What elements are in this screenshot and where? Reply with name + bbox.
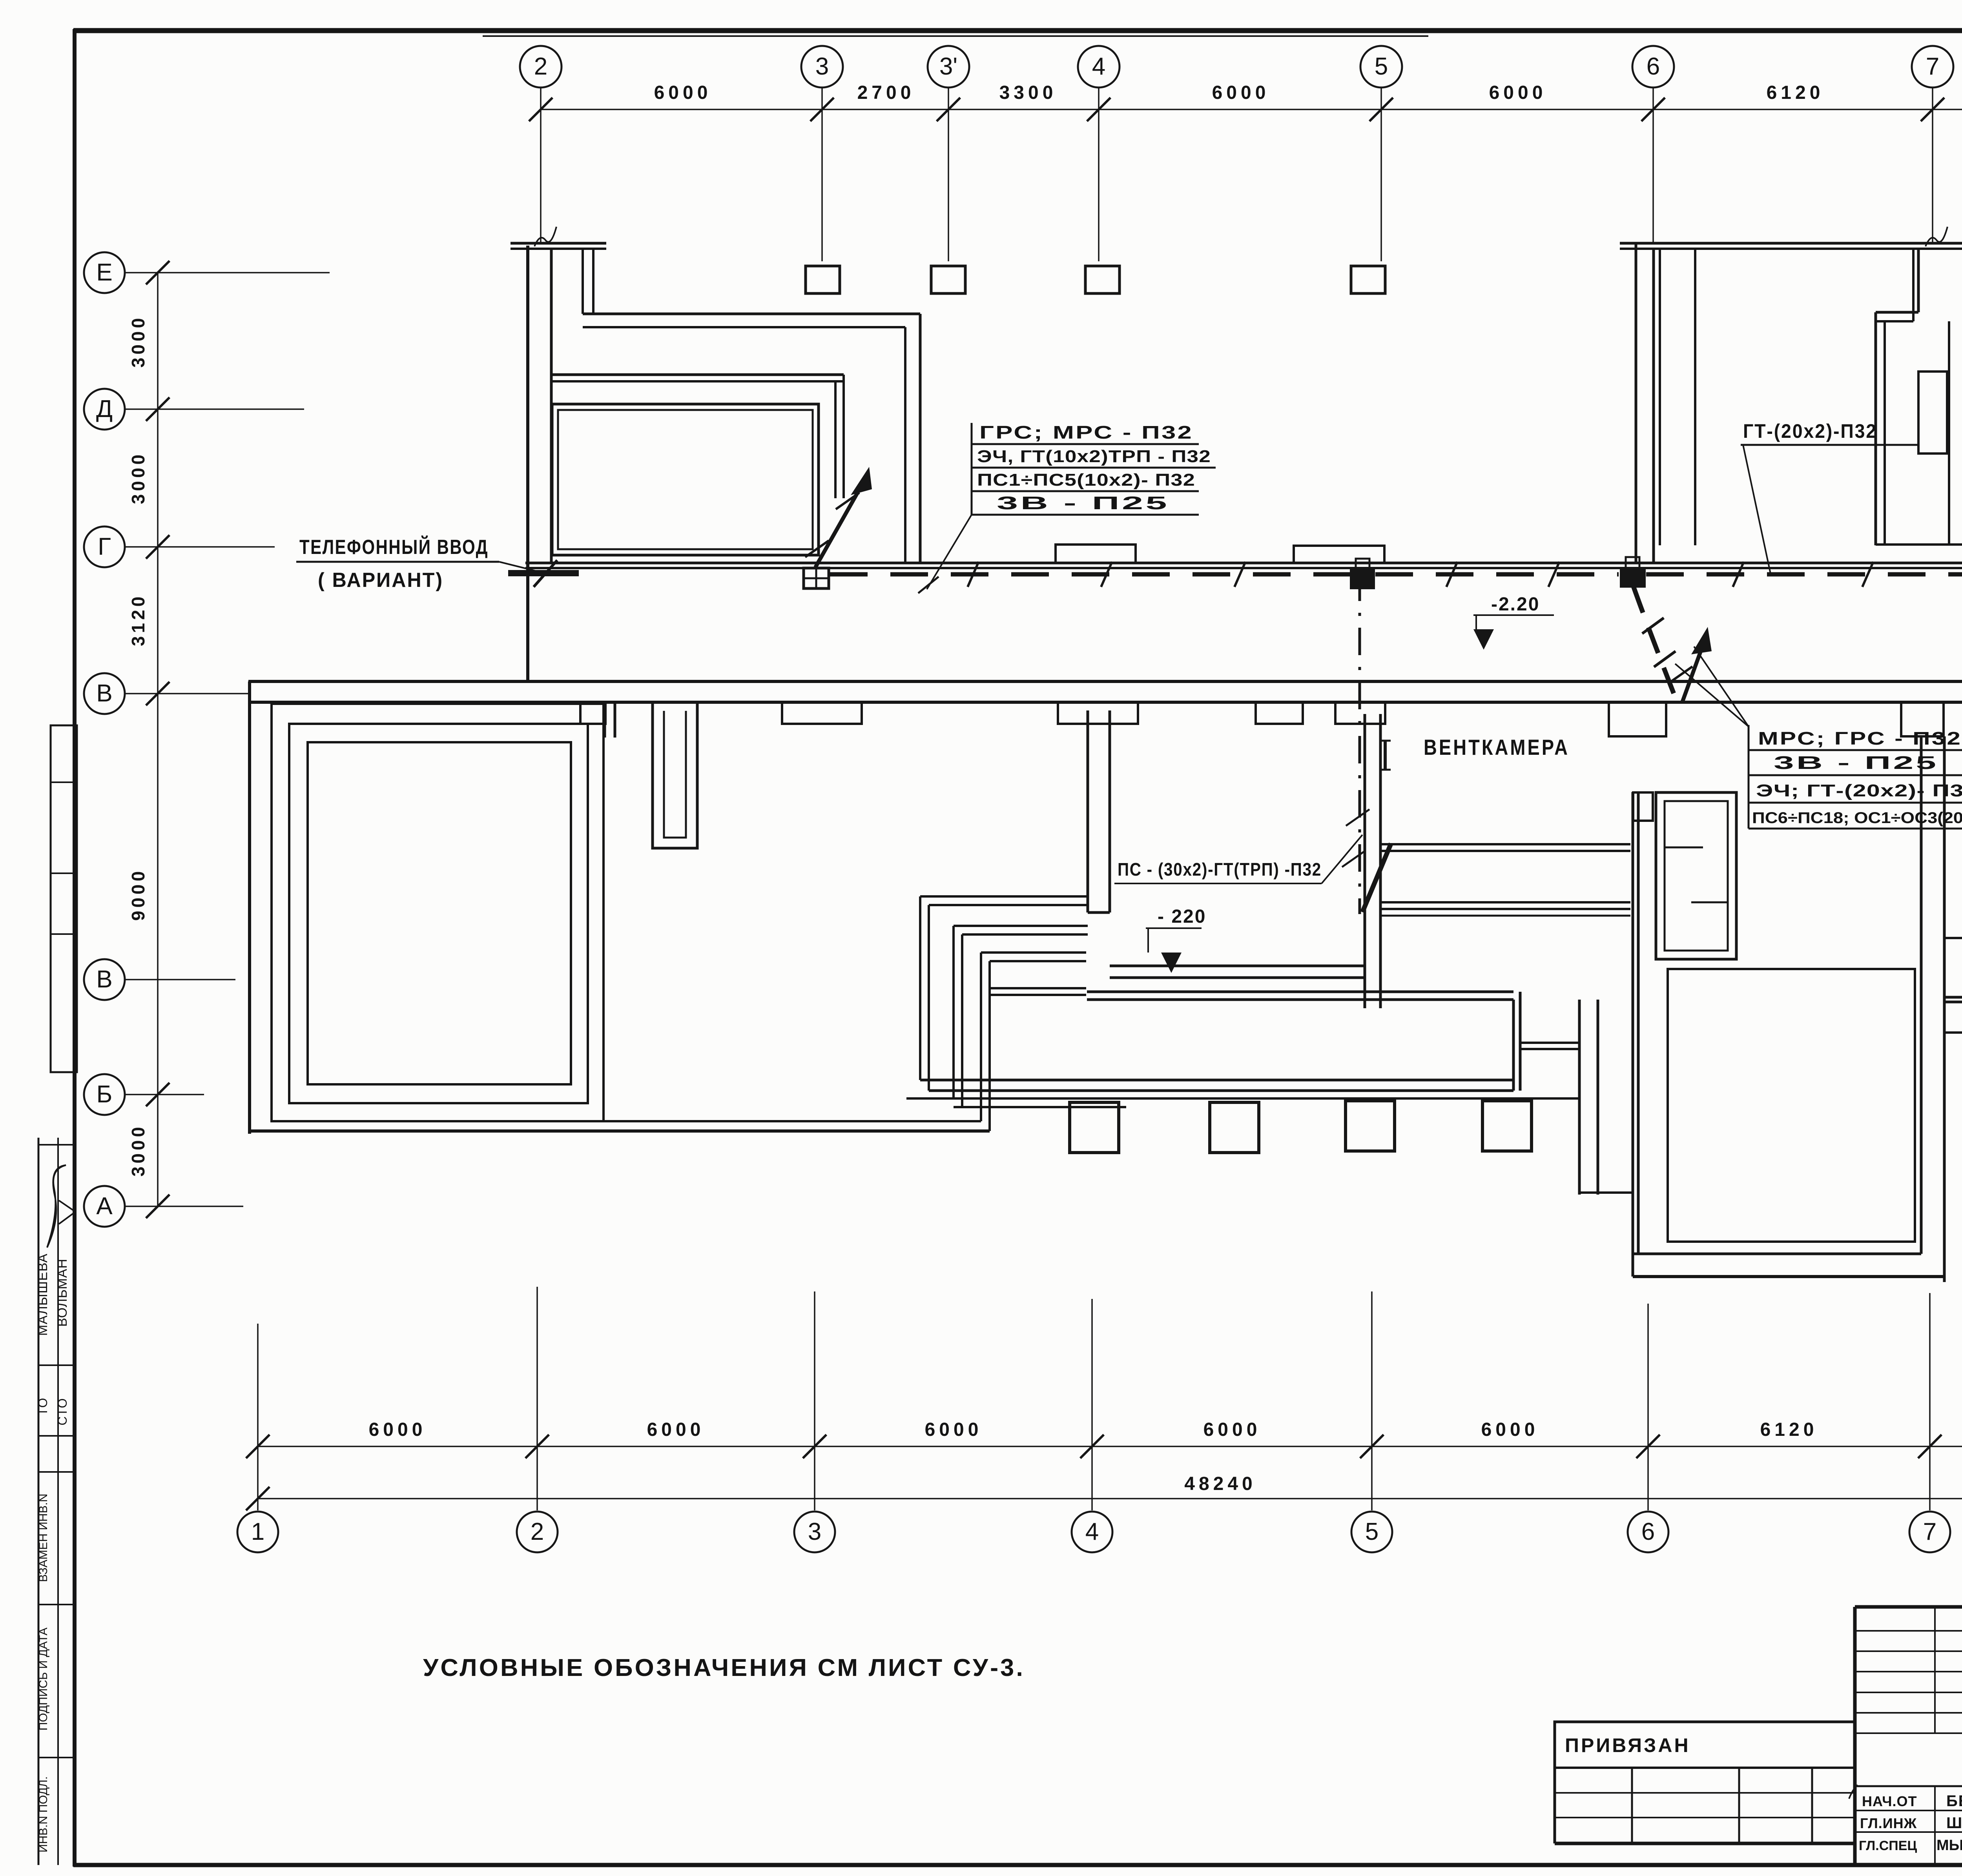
left axis lines — [125, 273, 330, 1206]
svg-text:ЭЧ, ГТ(10х2)ТРП - П32: ЭЧ, ГТ(10х2)ТРП - П32 — [977, 447, 1211, 466]
column square under axis 3 — [806, 266, 840, 293]
break marks on upper-right top wall — [1926, 227, 1962, 246]
upper-right block top wall — [1620, 243, 1962, 249]
lower building west wall — [248, 681, 251, 1134]
left axis circle Д #1 — [84, 389, 125, 430]
svg-text:ГЛ.ИНЖ: ГЛ.ИНЖ — [1860, 1815, 1917, 1831]
svg-text:3000: 3000 — [128, 452, 148, 504]
svg-text:Е: Е — [96, 259, 112, 286]
top axis circle 3 — [801, 46, 843, 87]
svg-text:ПС6÷ПС18; ОС1÷ОС3(20х2) П32: ПС6÷ПС18; ОС1÷ОС3(20х2) П32 — [1752, 809, 1962, 827]
label table МРС-ГРС near axis 5-6 — [1749, 725, 1962, 829]
upper-left block top wall — [511, 243, 606, 249]
vent chamber west partition — [1365, 714, 1380, 1008]
svg-text:6: 6 — [1641, 1518, 1655, 1545]
svg-text:СТО: СТО — [55, 1397, 69, 1425]
upper-left block west wall — [528, 246, 551, 681]
upper-left room3 outline — [552, 404, 819, 555]
svg-text:6000: 6000 — [1489, 82, 1547, 103]
upper-right room south wall above Г — [1876, 543, 1962, 546]
central south wall band — [906, 1080, 1579, 1107]
wing south wall — [1633, 1254, 1944, 1277]
wing west wall — [1633, 792, 1638, 1277]
svg-text:48240: 48240 — [1184, 1473, 1256, 1494]
svg-text:ТЕЛЕФОННЫЙ ВВОД: ТЕЛЕФОННЫЙ ВВОД — [299, 535, 489, 559]
telephone duct dashed line — [830, 572, 1962, 577]
column square bottom row 2 — [1210, 1102, 1259, 1153]
svg-text:2: 2 — [531, 1518, 544, 1545]
привязан box — [1555, 1722, 1855, 1768]
svg-text:МРС; ГРС - П32: МРС; ГРС - П32 — [1758, 728, 1962, 749]
channel cascade step 1 — [920, 896, 1088, 1091]
top axis circle 7 — [1912, 46, 1953, 87]
leaders to table МРС-ГРС — [1675, 647, 1749, 727]
bottom dimension labels — [369, 1419, 1962, 1440]
svg-text:ПОДПИСЬ И ДАТА: ПОДПИСЬ И ДАТА — [37, 1628, 50, 1731]
svg-text:ГРС; МРС - П32: ГРС; МРС - П32 — [979, 422, 1193, 443]
bottom axis circle 5 — [1351, 1512, 1392, 1552]
svg-text:7: 7 — [1926, 53, 1939, 80]
svg-text:ВЗАМЕН ИНВ.N: ВЗАМЕН ИНВ.N — [37, 1494, 50, 1582]
bottom axis circle 6 — [1628, 1512, 1668, 1552]
svg-text:ПРИВЯЗАН: ПРИВЯЗАН — [1565, 1734, 1690, 1756]
south protrusion room walls — [1513, 992, 1633, 1195]
column square bottom row 4 — [1482, 1101, 1532, 1151]
svg-text:6120: 6120 — [1760, 1419, 1818, 1440]
bottom axis circle 4 — [1072, 1512, 1112, 1552]
telephone line slash marks — [968, 562, 1962, 587]
top axis circle 4 — [1078, 46, 1120, 87]
svg-text:НАЧ.ОТ: НАЧ.ОТ — [1862, 1793, 1917, 1809]
bottom axis extension lines — [258, 1287, 1962, 1510]
top axis circle 5 — [1360, 46, 1402, 87]
left axis circle А #6 — [84, 1186, 125, 1227]
svg-text:В: В — [96, 966, 112, 993]
svg-text:2: 2 — [534, 53, 547, 80]
upper-right block west wall — [1636, 243, 1654, 564]
svg-text:4: 4 — [1085, 1518, 1099, 1545]
vent chamber duct run lower — [1380, 902, 1630, 916]
telephone cable drop diagonal — [1634, 587, 1676, 697]
left axis circle Б #5 — [84, 1074, 125, 1115]
upper-left room1 north wall — [583, 314, 920, 327]
title block signature scribbles — [1849, 1785, 1962, 1849]
left dimension labels — [128, 315, 148, 1177]
svg-text:ГТ-(20х2)-П32: ГТ-(20х2)-П32 — [1743, 420, 1877, 442]
привязан table — [1555, 1768, 1855, 1843]
svg-text:3': 3' — [939, 53, 957, 80]
svg-text:Б: Б — [97, 1081, 113, 1108]
level mark -2.20 corridor — [1473, 594, 1554, 650]
label ГТ-(20х2)-П32 — [1741, 420, 1920, 574]
svg-text:А: А — [96, 1193, 113, 1220]
room south wall before vent chamber — [1110, 966, 1366, 978]
partition wall east of cascade — [1088, 710, 1110, 913]
vent chamber duct run upper — [1380, 844, 1630, 851]
axis Г wall vestibule bumps — [1056, 545, 1384, 563]
svg-text:В: В — [96, 680, 112, 707]
bottom axis circle 1 — [237, 1512, 278, 1552]
upper-left room1 east wall — [905, 314, 920, 563]
svg-text:-2.20: -2.20 — [1491, 594, 1540, 615]
title block signatures names — [1859, 1792, 1962, 1854]
lower-left floor channel rings — [272, 704, 604, 1121]
telephone manhole box 2 — [1351, 559, 1374, 588]
svg-text:ПС - (30х2)-ГТ(ТРП) -П32: ПС - (30х2)-ГТ(ТРП) -П32 — [1118, 859, 1322, 880]
right block floor channel ring A — [1945, 707, 1962, 1101]
svg-text:2700: 2700 — [857, 82, 915, 103]
upper-right stepped room walls — [1876, 249, 1918, 545]
left dimension line — [146, 261, 170, 1218]
svg-text:ГЛ.СПЕЦ: ГЛ.СПЕЦ — [1859, 1838, 1917, 1853]
svg-text:БЕЛОВ: БЕЛОВ — [1946, 1792, 1962, 1810]
thick arrow near axis 6 — [1669, 627, 1712, 702]
leader from table ГРС-МРС — [918, 515, 972, 593]
axis В corridor wall — [248, 681, 1962, 702]
bottom axis circle 3 — [794, 1512, 835, 1552]
bottom dimension line — [246, 1435, 1962, 1458]
svg-text:ПС1÷ПС5(10х2)- П32: ПС1÷ПС5(10х2)- П32 — [977, 470, 1195, 490]
top axis circle 2 — [520, 46, 562, 87]
wing small wall box — [1633, 792, 1653, 821]
svg-text:- 220: - 220 — [1158, 906, 1206, 927]
svg-text:6000: 6000 — [1481, 1419, 1539, 1440]
svg-text:ТО: ТО — [36, 1397, 50, 1416]
upper-left room2 east duct walls — [835, 375, 844, 498]
wing stair room — [1656, 792, 1736, 959]
svg-text:9000: 9000 — [128, 868, 148, 921]
svg-text:Д: Д — [96, 395, 113, 423]
upper-left room2 north wall — [552, 375, 844, 381]
axis В wall pilasters — [580, 669, 1962, 736]
left axis circle В #3 — [84, 673, 125, 714]
column square bottom row 3 — [1346, 1101, 1395, 1151]
left margin stamp box upper — [51, 725, 77, 1072]
left margin signature scribble — [47, 1165, 74, 1248]
bottom axis circle 7 — [1909, 1512, 1950, 1552]
column square under axis 4 — [1085, 266, 1120, 293]
top dimension labels — [654, 82, 1962, 103]
svg-text:3000: 3000 — [128, 315, 148, 368]
channel cascade step 3 — [981, 953, 1086, 1131]
svg-text:6000: 6000 — [925, 1419, 983, 1440]
svg-text:3В - П25: 3В - П25 — [1774, 752, 1938, 773]
label ПС-(30х2)-ГТ(ТРП)-П32 — [1114, 809, 1369, 883]
wing east wall — [1921, 736, 1944, 1282]
svg-text:6000: 6000 — [369, 1419, 427, 1440]
title block left grid — [1855, 1607, 1962, 1865]
svg-text:6000: 6000 — [1212, 82, 1270, 103]
svg-text:ИНВ.N ПОДЛ.: ИНВ.N ПОДЛ. — [37, 1776, 50, 1852]
svg-text:( ВАРИАНТ): ( ВАРИАНТ) — [318, 569, 443, 592]
svg-text:6: 6 — [1647, 53, 1660, 80]
svg-text:5: 5 — [1375, 53, 1388, 80]
title block outer frame — [1855, 1607, 1962, 1865]
upper-left inner step wall — [583, 249, 593, 314]
svg-text:7: 7 — [1923, 1518, 1936, 1545]
column square under axis 3' — [931, 266, 965, 293]
lower-left south wall — [250, 1121, 990, 1131]
break mark on top wall at axis 2 — [534, 227, 556, 246]
svg-text:6000: 6000 — [1203, 1419, 1261, 1440]
left axis circle Е #0 — [84, 252, 125, 293]
svg-text:ЭЧ; ГТ-(20х2)- П32: ЭЧ; ГТ-(20х2)- П32 — [1756, 781, 1962, 800]
svg-text:6000: 6000 — [654, 82, 712, 103]
right block south-west jog wall — [1944, 997, 1962, 1134]
wing floor channel ring — [1668, 969, 1915, 1242]
upper-right inner closet — [1918, 372, 1947, 454]
section line I — [1360, 574, 1391, 914]
svg-text:3000: 3000 — [128, 1124, 148, 1177]
svg-text:3300: 3300 — [999, 82, 1057, 103]
svg-text:3В - П25: 3В - П25 — [997, 493, 1169, 513]
left margin rotated labels — [35, 1253, 70, 1852]
axis Г corridor wall — [525, 563, 1962, 568]
level mark -220 central room — [1146, 906, 1206, 973]
svg-text:ВЕНТКАМЕРА: ВЕНТКАМЕРА — [1424, 735, 1570, 760]
left axis circle В #4 — [84, 959, 125, 1000]
svg-text:МАЛЫШЕВА: МАЛЫШЕВА — [35, 1253, 50, 1336]
telephone manhole box 3 — [1621, 557, 1645, 587]
svg-text:ВОЛЬМАН: ВОЛЬМАН — [55, 1259, 70, 1327]
partition east of left room — [605, 702, 615, 738]
svg-text:1: 1 — [251, 1518, 264, 1545]
thick arrow near axis 3 — [805, 467, 872, 567]
right block floor channel ring B — [1945, 730, 1962, 1084]
top dimension line — [529, 98, 1962, 121]
label table ГРС-МРС near axis 3 — [972, 422, 1216, 515]
upper-right east partition — [1948, 321, 1950, 545]
bottom axis circle 2 — [517, 1512, 558, 1552]
svg-text:Г: Г — [98, 533, 111, 560]
top axis extension lines — [541, 88, 1962, 261]
bottom overall dimension line 48240 — [246, 1473, 1962, 1510]
svg-text:3120: 3120 — [128, 594, 148, 646]
upper-right duct chases — [1660, 249, 1695, 545]
svg-text:6120: 6120 — [1767, 82, 1824, 103]
west closet of wing — [1520, 1043, 1579, 1049]
column square bottom row 1 — [1070, 1102, 1119, 1153]
svg-text:5: 5 — [1365, 1518, 1379, 1545]
left axis circle Г #2 — [84, 526, 125, 567]
label telephone entry west — [296, 535, 546, 592]
duct shaft below axis В wall — [653, 702, 697, 848]
svg-text:3: 3 — [815, 53, 829, 80]
channel cascade step 2 — [954, 926, 1088, 1107]
svg-text:ШИЛОВ: ШИЛОВ — [1946, 1814, 1962, 1832]
svg-text:4: 4 — [1092, 53, 1105, 80]
central duct drop to south wall — [1087, 992, 1513, 1000]
top axis circle 3' — [928, 46, 969, 87]
svg-text:3: 3 — [808, 1518, 821, 1545]
svg-text:МЫТАРЕВА: МЫТАРЕВА — [1936, 1837, 1962, 1854]
column square under axis 5 — [1351, 266, 1385, 293]
telephone manhole box 1 — [804, 568, 829, 588]
top axis circle 6 — [1632, 46, 1674, 87]
left margin stamp grid lower — [38, 1138, 75, 1865]
telephone entry stub west — [508, 560, 579, 587]
svg-text:УСЛОВНЫЕ ОБОЗНАЧЕНИЯ СМ ЛИС: УСЛОВНЫЕ ОБОЗНАЧЕНИЯ СМ ЛИСТ СУ-3. — [423, 1654, 1025, 1681]
svg-text:6000: 6000 — [647, 1419, 705, 1440]
